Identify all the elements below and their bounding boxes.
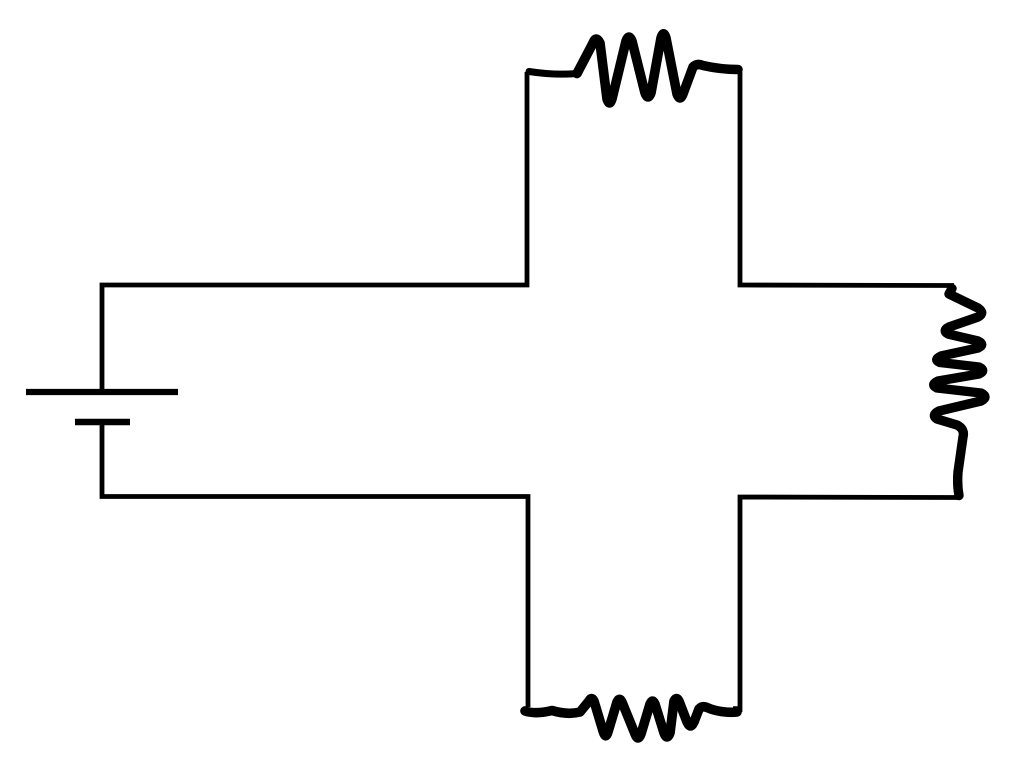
wire: top branch right vertical, right-top horizontal to R2 [740,72,954,286]
resistor R3 (bottom, hand-drawn zigzag) [525,699,737,739]
resistor R1 lead-in (left) [529,72,577,75]
wire: bottom branch right vertical up, bottom-right horizontal to R2 [740,497,958,712]
battery V1 long plate (positive) [26,389,178,395]
battery V1 short plate (negative) [75,419,130,426]
resistor R2 (right, hand-drawn vertical zigzag) [934,289,985,496]
wire: battery negative down, bottom-left horizontal, down into bottom branch [102,423,528,707]
resistor R1 (top, hand-drawn zigzag) [577,34,738,103]
wire: battery positive terminal up, left-top horizontal, up into top branch [102,72,527,391]
wire: small pen tick at bottom-right vertical foot [733,706,740,711]
